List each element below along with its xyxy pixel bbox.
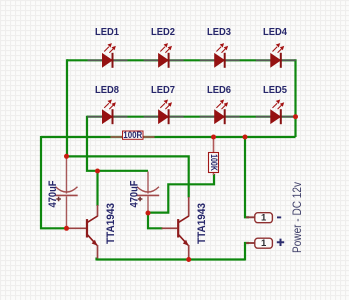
plus sign (277, 239, 284, 246)
connector pin 2 plus box (255, 238, 273, 248)
svg-text:LED1: LED1 (95, 27, 119, 38)
wire Q1 collector vertical (96, 171, 98, 206)
resistor R2 leads (213, 137, 215, 175)
svg-text:Power - DC 12v: Power - DC 12v (290, 181, 304, 253)
LED LED8 (88, 100, 128, 125)
wire power minus branch x245 (245, 137, 249, 217)
lead Q1 base (67, 227, 87, 229)
lead Q1 emitter (97, 245, 99, 259)
junction dot C2 bottom (146, 211, 151, 216)
capacitor C2 (137, 187, 159, 202)
svg-text:LED2: LED2 (151, 27, 175, 38)
LED LED2 (144, 43, 184, 68)
LED LED4 (256, 43, 296, 68)
wire power plus branch (245, 243, 249, 261)
resistor R2 body (209, 153, 219, 173)
junction dot Q2 emitter (186, 257, 191, 262)
junction dot Q1 base (64, 226, 69, 231)
svg-text:470uF: 470uF (128, 180, 140, 207)
wire left vertical row1 (x67) (66, 59, 68, 156)
svg-text:LED8: LED8 (95, 85, 119, 96)
transistor Q1 (87, 216, 98, 246)
wire rail left corner up (95, 258, 97, 261)
lead Q2 base (162, 227, 178, 229)
svg-text:LED4: LED4 (263, 27, 287, 38)
LED LED5 (256, 100, 296, 125)
wire y156.5 to Q2 collector (67, 156, 189, 197)
junction dot C1 top (64, 154, 69, 159)
lead Q2 emitter (188, 245, 190, 260)
svg-text:100R: 100R (123, 130, 142, 140)
svg-text:1: 1 (261, 213, 267, 224)
svg-text:LED7: LED7 (151, 85, 175, 96)
junction dot R2 top (211, 135, 216, 140)
junction dot Q1 collector net (95, 169, 100, 174)
LED LED6 (200, 100, 240, 125)
lead C1 bottom (66, 196, 68, 228)
svg-text:100K: 100K (209, 154, 219, 171)
junction dot power minus (243, 135, 248, 140)
LED LED7 (144, 100, 184, 125)
svg-text:TTA1943: TTA1943 (196, 203, 208, 244)
transistor Q2 (178, 216, 189, 246)
LED LED3 (200, 43, 240, 68)
lead C1 top (66, 156, 68, 193)
resistor R1 body (123, 131, 144, 139)
connector pin 2 plus lead (246, 242, 255, 244)
minus sign (277, 216, 281, 218)
svg-text:470uF: 470uF (47, 180, 59, 207)
wire C2 bottom to Q2 base (148, 213, 163, 228)
wire bottom rail (97, 258, 246, 260)
junction dot LED5 right (293, 114, 298, 119)
wire x41 left vertical down (41, 136, 67, 228)
wire top rail row1 (67, 59, 296, 61)
svg-text:TTA1943: TTA1943 (105, 203, 117, 244)
lead C2 top (147, 172, 149, 194)
resistor R1 leads (111, 136, 155, 138)
capacitor C1 (55, 187, 77, 202)
wire y137 horizontal (41, 136, 296, 138)
connector pin 1 minus lead (246, 216, 255, 218)
connector pin 1 minus box (255, 213, 273, 223)
svg-text:LED3: LED3 (207, 27, 231, 38)
lead C2 bottom (147, 196, 149, 213)
svg-text:LED6: LED6 (207, 85, 231, 96)
wire row2 left vertical and to Q1 collector node (87, 116, 148, 171)
wire C2 base net: dot to Q2 base (148, 174, 214, 213)
lead Q1 collector (97, 205, 99, 217)
LED LED1 (88, 43, 128, 68)
wire right vertical (294, 59, 296, 137)
lead Q2 collector (188, 197, 190, 217)
svg-text:LED5: LED5 (263, 85, 287, 96)
wire row2 rail (87, 116, 296, 118)
svg-text:1: 1 (261, 238, 267, 249)
